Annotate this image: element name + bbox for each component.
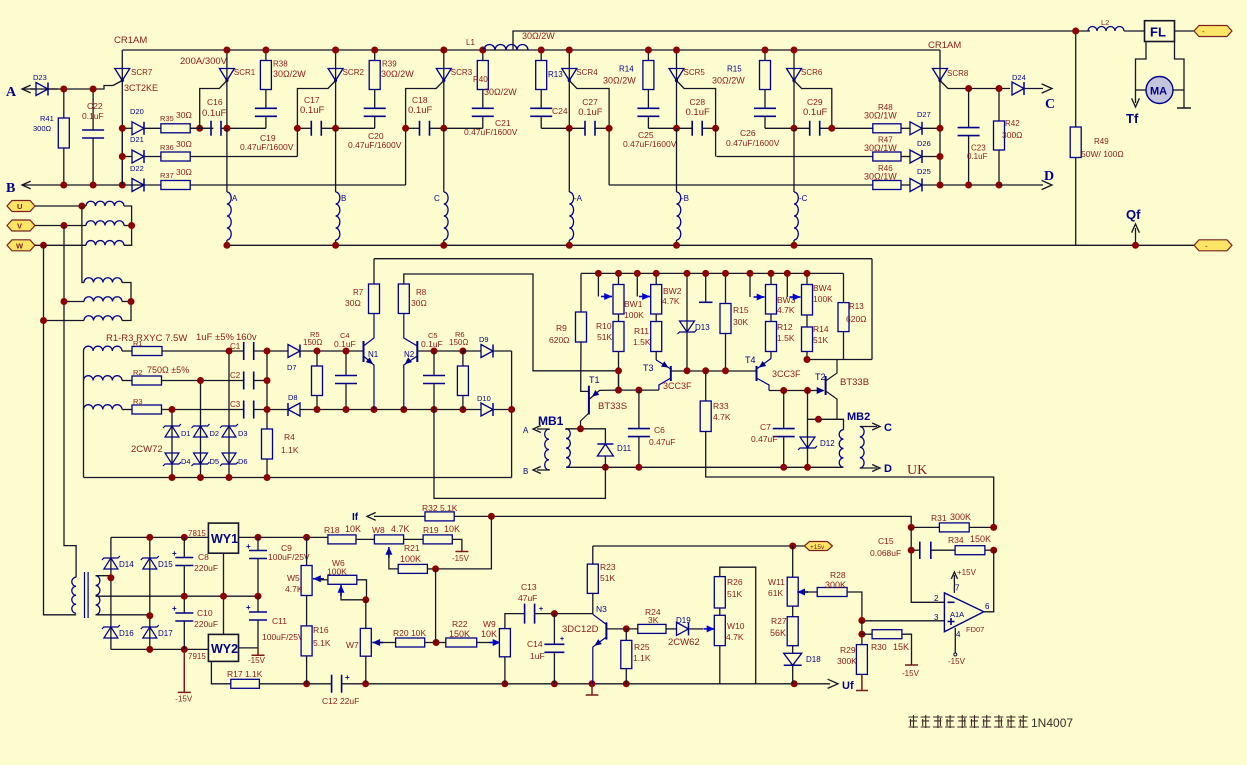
- svg-text:51K: 51K: [813, 335, 828, 345]
- svg-text:+: +: [246, 603, 251, 612]
- svg-text:R15: R15: [727, 65, 742, 74]
- diode D10: [481, 403, 493, 416]
- thyristor SCR5: [676, 50, 678, 128]
- svg-text:C7: C7: [760, 422, 771, 432]
- svg-text:R20 10K: R20 10K: [393, 628, 426, 638]
- svg-text:C12 22uF: C12 22uF: [322, 696, 359, 706]
- resistor R40: [482, 50, 484, 61]
- resistor R39: [374, 50, 376, 61]
- wire common vertical: [266, 351, 268, 429]
- terminal V: [7, 220, 35, 231]
- svg-text:300K: 300K: [825, 580, 846, 590]
- resistor R26: [714, 577, 725, 608]
- svg-text:3CC3F: 3CC3F: [772, 369, 801, 379]
- svg-text:0.1uF: 0.1uF: [686, 107, 710, 118]
- resistor R33: [705, 371, 707, 401]
- resistor R15b: [725, 273, 727, 303]
- svg-text:MB1: MB1: [538, 414, 564, 428]
- svg-text:D9: D9: [479, 335, 489, 344]
- resistor R13: [540, 50, 542, 61]
- regulator WY1: [208, 523, 238, 553]
- flag -15V under C10: [178, 649, 191, 692]
- svg-text:30Ω/2W: 30Ω/2W: [522, 31, 555, 41]
- svg-text:B: B: [341, 194, 346, 203]
- svg-text:C17: C17: [304, 95, 320, 105]
- svg-text:150K: 150K: [970, 534, 991, 544]
- svg-text:R36: R36: [160, 143, 174, 152]
- svg-text:4: 4: [956, 630, 961, 639]
- resistor R17: [231, 679, 260, 688]
- svg-text:30Ω/2W: 30Ω/2W: [712, 76, 745, 86]
- svg-text:If: If: [352, 512, 359, 523]
- svg-text:C10: C10: [197, 608, 213, 618]
- wire D19 to W10: [689, 628, 704, 630]
- flag -15V R19: [452, 539, 462, 551]
- wire W8 wiper to R21: [389, 551, 398, 569]
- svg-text:+: +: [246, 542, 251, 551]
- wire V down: [64, 226, 76, 578]
- wire row1 left: [122, 127, 132, 129]
- svg-text:C29: C29: [807, 97, 823, 107]
- svg-text:B: B: [6, 181, 15, 196]
- bottom bus: [227, 244, 1194, 246]
- diode D20: [132, 122, 144, 135]
- node C row: [969, 88, 1010, 90]
- wire secondary tap: [96, 595, 258, 597]
- wire R7 top line: [374, 258, 872, 260]
- junction dots rows A B: [60, 86, 67, 93]
- terminal plus: [1194, 26, 1232, 37]
- svg-text:B: B: [523, 467, 528, 476]
- node Qf: [1135, 228, 1137, 245]
- diode D27: [910, 122, 922, 135]
- svg-text:W: W: [16, 241, 24, 250]
- capacitor C12: [332, 675, 342, 693]
- wire T4 collector row: [769, 390, 824, 392]
- capacitor C22: [92, 89, 94, 130]
- resistor R22: [446, 638, 477, 647]
- svg-text:CR1AM: CR1AM: [114, 35, 147, 46]
- svg-text:SCR2: SCR2: [343, 68, 365, 77]
- wire W6 right: [357, 580, 367, 600]
- wire plus rail: [111, 536, 208, 538]
- ground stub: [705, 273, 707, 302]
- diode D15: [143, 558, 157, 569]
- ground stub R29: [856, 674, 868, 690]
- transistor T4: [756, 366, 758, 381]
- thyristor SCR3: [443, 50, 445, 128]
- filter box FL: [1124, 30, 1145, 32]
- transistor N3: [605, 622, 607, 639]
- svg-text:C6: C6: [654, 425, 665, 435]
- zener D1: [171, 410, 173, 478]
- resistor R1: [122, 350, 132, 352]
- transistor N1: [363, 341, 365, 362]
- svg-text:Uf: Uf: [842, 680, 854, 692]
- node D arrow: [999, 184, 1043, 186]
- wire N3 base: [606, 628, 637, 630]
- svg-text:D8: D8: [288, 393, 298, 402]
- ammeter ground bar: [1177, 107, 1191, 109]
- resistor R42: [998, 89, 1000, 122]
- flag -15V under C11: [252, 648, 265, 655]
- wire SCR2 gate: [297, 81, 335, 129]
- svg-text:1uF: 1uF: [530, 651, 545, 661]
- transformer coils set2: [84, 278, 122, 283]
- wire WY2 to R17: [211, 661, 230, 683]
- svg-text:C15: C15: [878, 536, 894, 546]
- wire FL to plus terminal: [1175, 30, 1195, 32]
- resistor R32: [425, 512, 454, 521]
- svg-text:R19: R19: [423, 525, 439, 535]
- svg-text:51K: 51K: [600, 573, 615, 583]
- resistor R7: [373, 259, 375, 284]
- svg-text:0.1uF: 0.1uF: [421, 339, 443, 349]
- svg-text:30Ω/2W: 30Ω/2W: [273, 69, 306, 79]
- resistor R38: [265, 50, 267, 61]
- terminal +15v: [804, 542, 832, 551]
- capacitor C20 snubber: [374, 90, 376, 109]
- potentiometer W11: [787, 577, 798, 606]
- diode D22: [132, 179, 144, 192]
- wire gate4 riser: [608, 128, 610, 185]
- resistor R4: [262, 429, 273, 459]
- transistor T3: [670, 366, 672, 381]
- svg-text:D10: D10: [477, 394, 491, 403]
- resistor R28: [801, 591, 817, 593]
- svg-text:-15V: -15V: [248, 656, 266, 665]
- wire opamp out: [984, 550, 994, 612]
- svg-text:N3: N3: [596, 604, 607, 614]
- resistor R14b: [806, 315, 808, 327]
- wire SCR6 gate: [794, 81, 832, 129]
- svg-text:-15V: -15V: [902, 669, 920, 678]
- svg-text:C: C: [884, 422, 892, 434]
- svg-text:R28: R28: [830, 570, 846, 580]
- svg-text:R13: R13: [548, 70, 563, 79]
- wire WY2 out: [239, 647, 259, 649]
- svg-text:R21: R21: [404, 543, 420, 553]
- svg-text:C3: C3: [230, 400, 241, 409]
- svg-text:R23: R23: [600, 562, 616, 572]
- svg-text:+: +: [172, 549, 177, 558]
- svg-text:+: +: [560, 636, 564, 643]
- regulator WY2: [208, 634, 238, 661]
- svg-text:SCR5: SCR5: [684, 68, 706, 77]
- wire bridge right vertical: [149, 537, 151, 649]
- resistor R27: [792, 606, 794, 617]
- svg-text:BW2: BW2: [663, 286, 682, 296]
- svg-text:D25: D25: [917, 167, 931, 176]
- resistor R35: [161, 124, 190, 133]
- diode D8: [288, 403, 300, 416]
- svg-text:D5: D5: [210, 457, 220, 466]
- resistor R6: [462, 351, 464, 366]
- capacitor C24 snubber: [540, 90, 542, 109]
- svg-text:0.1uF: 0.1uF: [578, 107, 602, 118]
- wire row185 right: [609, 184, 873, 186]
- svg-text:C26: C26: [740, 128, 756, 138]
- svg-text:WY2: WY2: [211, 642, 238, 656]
- svg-text:620Ω: 620Ω: [549, 335, 570, 345]
- svg-text:300K: 300K: [837, 656, 857, 666]
- svg-text:R41: R41: [40, 114, 54, 123]
- svg-text:150Ω: 150Ω: [303, 338, 322, 347]
- svg-text:R40: R40: [473, 75, 488, 84]
- diode D21: [132, 150, 144, 163]
- diode D9: [481, 345, 493, 358]
- svg-text:C2: C2: [230, 371, 241, 380]
- transformer MB2: [839, 430, 843, 468]
- arrow Uf: [828, 679, 838, 688]
- svg-text:C14: C14: [527, 639, 543, 649]
- svg-text:10K: 10K: [444, 524, 460, 534]
- svg-text:C28: C28: [690, 97, 706, 107]
- capacitor C9: [257, 537, 259, 550]
- svg-text:BT33B: BT33B: [840, 377, 869, 388]
- svg-text:6: 6: [985, 602, 990, 611]
- wire row1 to N1: [317, 350, 364, 352]
- wire secondary bottom: [96, 614, 150, 617]
- transformer primary coils set1: [86, 201, 124, 206]
- capacitor C29: [810, 121, 820, 136]
- wire secondary top: [96, 576, 111, 578]
- wire row 359: [807, 359, 872, 361]
- svg-text:10K: 10K: [345, 524, 361, 534]
- svg-text:-: -: [1205, 242, 1208, 251]
- svg-text:A: A: [6, 85, 17, 100]
- capacitor C13: [525, 604, 535, 624]
- potentiometer W8: [374, 535, 403, 544]
- svg-text:D6: D6: [238, 457, 248, 466]
- capacitor C5: [433, 351, 435, 376]
- svg-text:Tf: Tf: [1126, 111, 1139, 126]
- wire plus15 line: [593, 545, 805, 547]
- svg-text:C22: C22: [87, 101, 103, 111]
- resistor R46: [873, 181, 901, 190]
- resistor R14: [647, 50, 649, 61]
- svg-text:A1A: A1A: [950, 610, 964, 619]
- svg-text:D20: D20: [130, 107, 144, 116]
- wire bottom rail left: [259, 683, 331, 685]
- capacitor C6: [638, 390, 640, 429]
- svg-text:0.1uF: 0.1uF: [82, 111, 104, 121]
- svg-text:R25: R25: [634, 642, 650, 652]
- svg-text:D4: D4: [181, 457, 191, 466]
- svg-text:R30: R30: [871, 642, 887, 652]
- potentiometer W5: [306, 537, 308, 565]
- svg-text:R7: R7: [353, 288, 364, 297]
- svg-text:D26: D26: [917, 139, 931, 148]
- resistor R18: [328, 535, 356, 544]
- svg-text:30Ω/1W: 30Ω/1W: [864, 172, 897, 182]
- resistor R8: [398, 284, 409, 314]
- diode D11: [597, 444, 613, 456]
- svg-text:0.47uF/1600V: 0.47uF/1600V: [726, 138, 780, 148]
- resistor R25: [625, 629, 627, 641]
- svg-text:+15v: +15v: [810, 544, 825, 551]
- svg-text:0.47uF/1600V: 0.47uF/1600V: [464, 127, 518, 137]
- svg-text:2CW62: 2CW62: [668, 637, 700, 648]
- svg-text:SCR8: SCR8: [947, 69, 969, 78]
- wire W: [35, 244, 86, 246]
- resistor R36: [161, 152, 190, 161]
- svg-text:+15V: +15V: [957, 568, 977, 577]
- svg-text:7815: 7815: [188, 529, 206, 538]
- diode D7: [288, 345, 300, 358]
- resistor R31: [911, 526, 939, 528]
- capacitor C19 snubber: [265, 90, 267, 109]
- svg-text:30Ω: 30Ω: [345, 298, 361, 308]
- svg-text:1.1K: 1.1K: [633, 653, 651, 663]
- svg-text:WY1: WY1: [211, 532, 238, 546]
- svg-text:R13: R13: [849, 302, 864, 311]
- svg-text:BT33S: BT33S: [598, 401, 627, 412]
- capacitor C27: [585, 121, 595, 136]
- resistor R5: [316, 351, 318, 366]
- zener D3: [228, 351, 230, 478]
- thyristor SCR2: [335, 50, 337, 128]
- wire top feeder line: [513, 31, 1090, 50]
- resistor R10: [618, 314, 620, 322]
- svg-text:300K: 300K: [950, 512, 971, 522]
- wire SCR3 gate: [406, 81, 444, 129]
- diode D19: [677, 622, 689, 635]
- svg-text:W9: W9: [483, 619, 496, 629]
- svg-text:R49: R49: [1094, 137, 1109, 146]
- wire minus rail: [111, 648, 208, 650]
- coil -C: [793, 128, 795, 192]
- wire R31 to C15: [911, 527, 944, 602]
- svg-text:W5: W5: [287, 573, 300, 583]
- svg-text:L2: L2: [1101, 18, 1109, 27]
- wire +15 rail: [239, 536, 328, 538]
- resistor R41: [63, 89, 65, 118]
- svg-text:0.1uF: 0.1uF: [334, 339, 356, 349]
- svg-text:100K: 100K: [624, 310, 644, 320]
- wire C5 bottom to MB1 loop: [434, 410, 605, 499]
- wire W6 wiper: [341, 591, 366, 599]
- unijunction T1: [588, 386, 590, 415]
- wire T1 region: [618, 371, 620, 390]
- wire D9 D10 out vertical: [511, 351, 513, 478]
- svg-text:SCR7: SCR7: [131, 68, 153, 77]
- wire pin3 row: [862, 620, 945, 622]
- zener D5: [194, 453, 208, 464]
- svg-text:MA: MA: [1150, 86, 1167, 98]
- wire If row: [374, 515, 425, 517]
- capacitor C8: [183, 537, 185, 557]
- svg-text:D18: D18: [806, 655, 821, 664]
- svg-text:7915: 7915: [188, 652, 206, 661]
- capacitor C4: [345, 351, 347, 376]
- wire U: [35, 205, 86, 207]
- capacitor C25 snubber: [647, 90, 649, 109]
- svg-text:0.1uF: 0.1uF: [408, 105, 432, 116]
- svg-text:C: C: [1045, 97, 1055, 112]
- svg-text:4.7K: 4.7K: [726, 632, 744, 642]
- svg-text:0.47uF: 0.47uF: [751, 434, 777, 444]
- potentiometer BW4: [806, 273, 808, 284]
- svg-text:3DC12D: 3DC12D: [562, 624, 599, 635]
- svg-text:SCR1: SCR1: [234, 68, 256, 77]
- capacitor C10: [183, 596, 185, 613]
- svg-text:220uF: 220uF: [194, 563, 218, 573]
- svg-text:0.47uF/1600V: 0.47uF/1600V: [240, 142, 294, 152]
- potentiometer W7: [365, 600, 367, 629]
- thyristor SCR4: [568, 50, 570, 128]
- inductor L2: [1088, 27, 1124, 32]
- wire MB1 secondary B: [537, 469, 549, 470]
- svg-text:4.7K: 4.7K: [391, 524, 410, 534]
- capacitor C17: [311, 121, 321, 136]
- coil -B: [676, 128, 678, 192]
- coil C: [443, 128, 445, 192]
- resistor R48: [873, 124, 901, 133]
- svg-text:30Ω: 30Ω: [176, 110, 192, 120]
- diode D25: [910, 179, 922, 192]
- wire gate2 riser: [296, 128, 298, 156]
- svg-text:FD07: FD07: [966, 625, 984, 634]
- svg-text:T1: T1: [589, 375, 600, 385]
- svg-text:R37: R37: [160, 171, 174, 180]
- capacitor C1: [244, 342, 254, 360]
- potentiometer BW1: [618, 273, 620, 284]
- resistor R47: [717, 156, 873, 158]
- svg-text:R39: R39: [382, 60, 397, 69]
- svg-text:U: U: [17, 202, 22, 211]
- svg-text:D19: D19: [676, 616, 691, 625]
- wire R8 top feed: [404, 274, 619, 371]
- svg-text:R17 1.1K: R17 1.1K: [227, 669, 263, 679]
- opamp A1A: [944, 593, 983, 632]
- svg-text:R12: R12: [777, 322, 793, 332]
- wire R21 node down: [435, 569, 437, 643]
- zener D6: [222, 453, 236, 464]
- svg-text:200A/300V: 200A/300V: [180, 56, 228, 67]
- svg-text:R9: R9: [556, 323, 567, 333]
- resistor R49: [1075, 31, 1077, 127]
- diode D16: [104, 627, 118, 638]
- resistor R15: [764, 50, 766, 61]
- zener D12: [807, 391, 809, 468]
- inductor L1: [484, 45, 528, 51]
- svg-text:0.1uF: 0.1uF: [202, 108, 226, 119]
- svg-text:51K: 51K: [597, 332, 612, 342]
- svg-text:30Ω: 30Ω: [176, 167, 192, 177]
- wire MB2 secondary taps: [860, 426, 877, 428]
- wire bridge left vertical: [110, 537, 112, 649]
- dots SCR3: [440, 47, 447, 54]
- svg-text:D: D: [884, 463, 892, 475]
- resistor R37: [161, 181, 190, 190]
- resistor R12: [770, 314, 772, 322]
- svg-text:+: +: [539, 606, 543, 613]
- svg-text:W11: W11: [768, 577, 785, 587]
- wire SCR5 gate: [677, 81, 716, 129]
- wire W9 top to C13: [505, 614, 525, 629]
- svg-text:-15V: -15V: [948, 657, 966, 666]
- svg-text:30Ω/2W: 30Ω/2W: [603, 76, 636, 86]
- svg-text:R14: R14: [619, 65, 634, 74]
- svg-text:R33: R33: [713, 401, 729, 411]
- wire trigger bus: [581, 272, 844, 274]
- svg-text:R8: R8: [416, 288, 427, 297]
- wire MB1 primary top: [566, 429, 605, 444]
- svg-text:150K: 150K: [449, 629, 470, 639]
- wire UK feedback line: [706, 467, 994, 527]
- svg-text:0.1uF: 0.1uF: [967, 152, 988, 161]
